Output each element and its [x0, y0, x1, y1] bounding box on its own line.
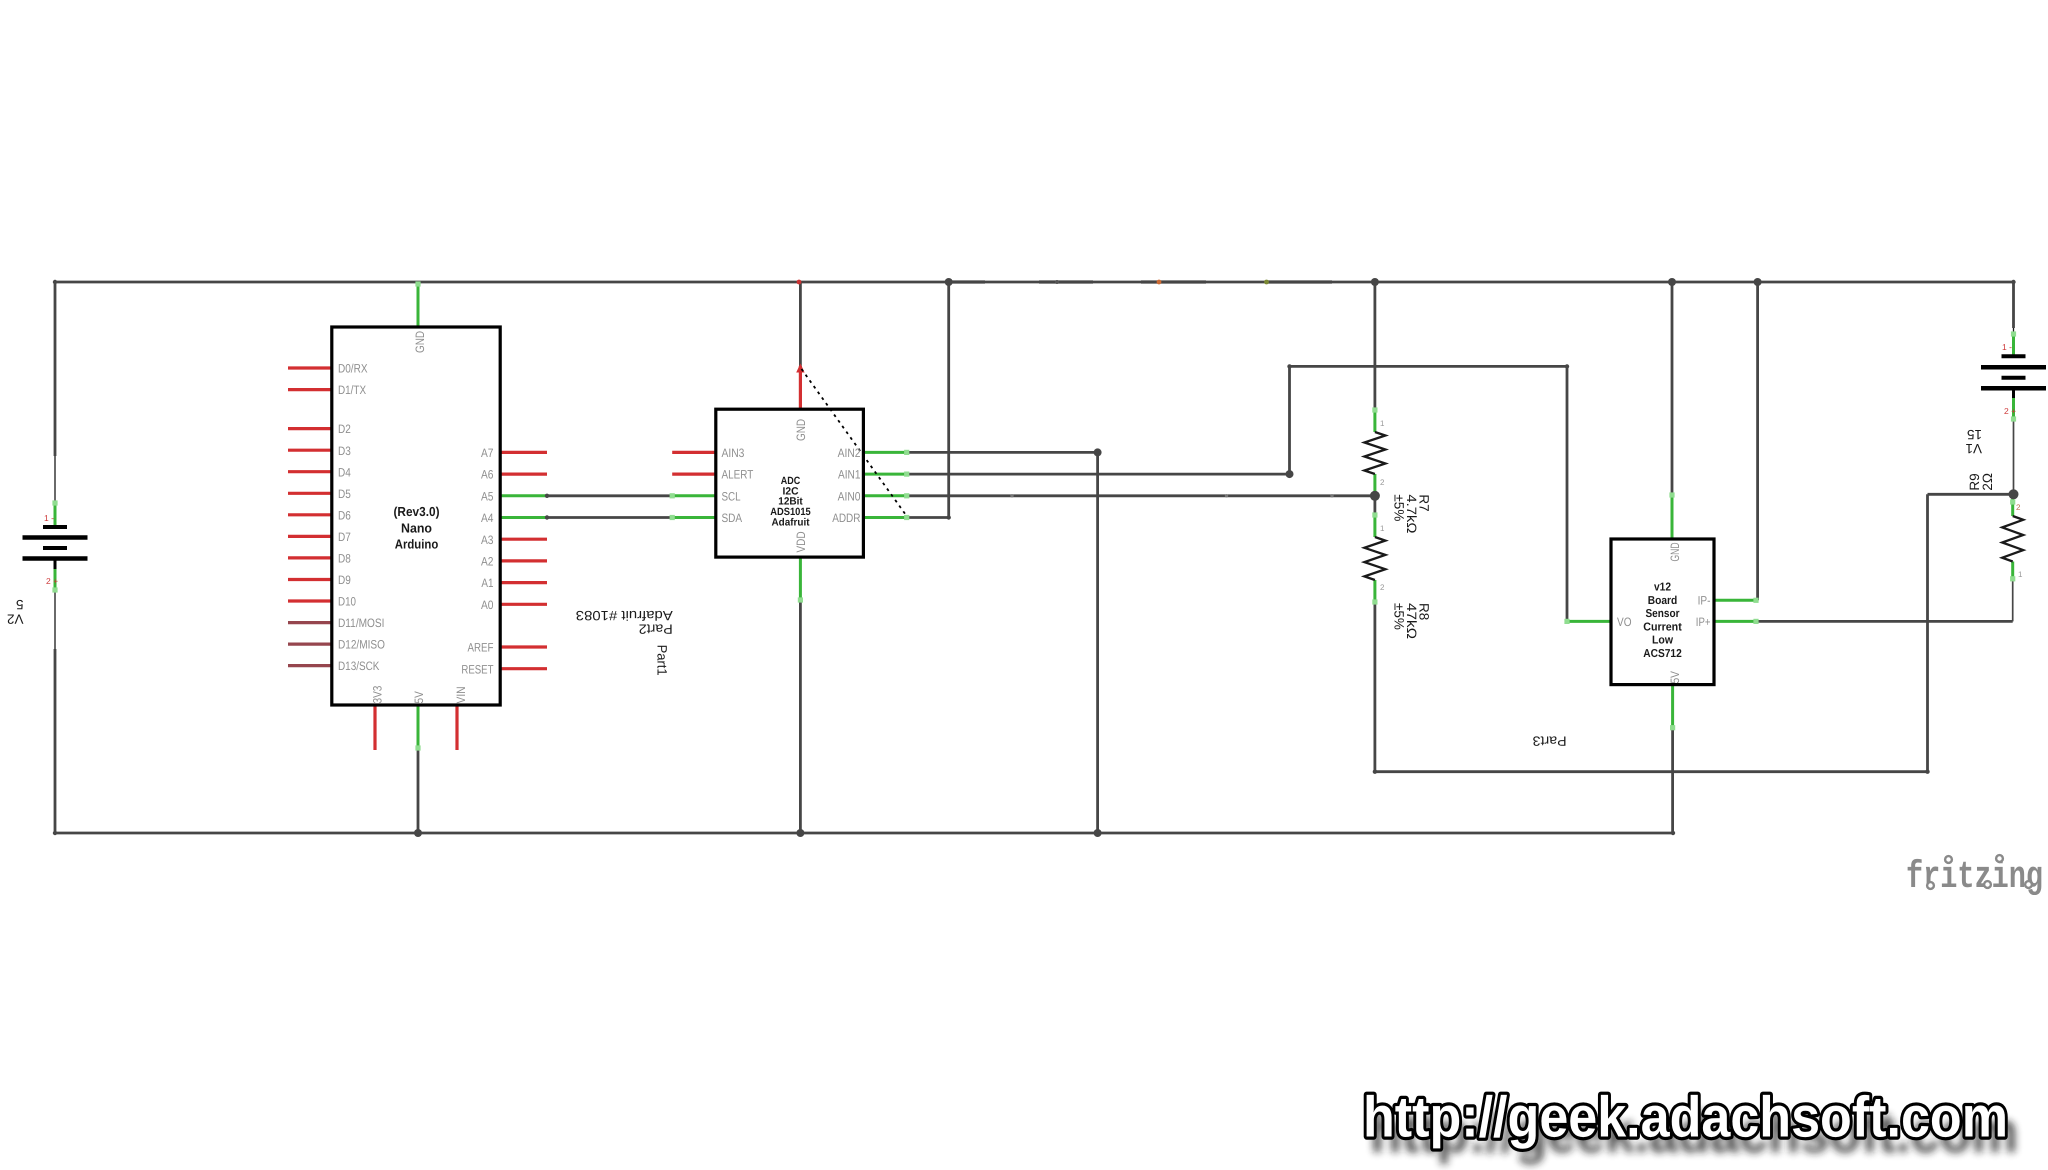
svg-text:AIN0: AIN0 — [838, 489, 861, 503]
svg-text:D1/TX: D1/TX — [338, 383, 366, 397]
svg-text:V2: V2 — [7, 612, 24, 627]
svg-text:ALERT: ALERT — [722, 468, 754, 482]
svg-text:2: 2 — [1380, 478, 1385, 487]
svg-text:±5%: ±5% — [1391, 494, 1406, 521]
svg-text:ACS712: ACS712 — [1643, 648, 1682, 660]
svg-text:Board: Board — [1648, 595, 1678, 607]
svg-text:Part1: Part1 — [655, 645, 670, 676]
svg-text:VIN: VIN — [454, 686, 468, 703]
svg-text:1 -: 1 - — [44, 513, 54, 523]
svg-text:D12/MISO: D12/MISO — [338, 638, 385, 652]
svg-text:5V: 5V — [1668, 670, 1682, 683]
svg-text:AIN1: AIN1 — [838, 468, 861, 482]
svg-text:2Ω: 2Ω — [1980, 473, 1995, 491]
svg-text:D7: D7 — [338, 530, 351, 544]
svg-text:D4: D4 — [338, 465, 351, 479]
svg-text:1: 1 — [1380, 524, 1385, 533]
svg-text:5: 5 — [16, 597, 24, 612]
svg-text:D9: D9 — [338, 573, 351, 587]
svg-text:AIN3: AIN3 — [722, 446, 745, 460]
svg-text:A0: A0 — [481, 598, 494, 612]
svg-text:AREF: AREF — [468, 641, 494, 655]
svg-text:2 +: 2 + — [46, 576, 58, 586]
svg-text:Part3: Part3 — [1533, 734, 1567, 749]
svg-text:v12: v12 — [1654, 582, 1671, 594]
svg-text:D3: D3 — [338, 444, 351, 458]
svg-text:IP+: IP+ — [1696, 615, 1711, 629]
svg-text:GND: GND — [794, 419, 808, 441]
svg-text:A5: A5 — [481, 489, 494, 503]
svg-text:VO: VO — [1617, 615, 1632, 629]
svg-text:A1: A1 — [481, 576, 493, 590]
svg-text:3V3: 3V3 — [371, 685, 385, 703]
svg-text:VDD: VDD — [794, 531, 808, 552]
svg-text:AIN2: AIN2 — [838, 446, 861, 460]
svg-text:IP-: IP- — [1698, 594, 1711, 608]
svg-text:±5%: ±5% — [1391, 603, 1406, 630]
svg-text:2 +: 2 + — [2004, 406, 2016, 416]
svg-text:15: 15 — [1967, 427, 1982, 442]
svg-text:(Rev3.0): (Rev3.0) — [394, 504, 440, 519]
svg-text:GND: GND — [1668, 542, 1682, 561]
svg-text:fritzing: fritzing — [1906, 856, 2043, 899]
svg-text:D0/RX: D0/RX — [338, 362, 368, 376]
svg-text:D5: D5 — [338, 487, 351, 501]
svg-text:2: 2 — [1380, 583, 1385, 592]
svg-text:5V: 5V — [412, 690, 426, 703]
svg-text:2: 2 — [2016, 503, 2021, 512]
svg-text:SDA: SDA — [722, 511, 743, 525]
svg-text:Sensor: Sensor — [1646, 608, 1680, 620]
svg-text:Arduino: Arduino — [395, 537, 439, 552]
svg-text:D11/MOSI: D11/MOSI — [338, 616, 385, 630]
svg-text:Nano: Nano — [401, 520, 432, 535]
svg-text:SCL: SCL — [722, 489, 741, 503]
svg-text:D13/SCK: D13/SCK — [338, 659, 379, 673]
svg-text:Low: Low — [1652, 635, 1673, 647]
svg-text:ADDR: ADDR — [832, 511, 860, 525]
svg-text:D2: D2 — [338, 422, 351, 436]
svg-text:A4: A4 — [481, 511, 494, 525]
svg-text:Adafruit #1083: Adafruit #1083 — [576, 608, 673, 623]
svg-text:A3: A3 — [481, 533, 494, 547]
svg-text:1: 1 — [1380, 419, 1385, 428]
svg-text:1 -: 1 - — [2002, 342, 2012, 352]
svg-text:D6: D6 — [338, 508, 351, 522]
svg-text:http://geek.adachsoft.com: http://geek.adachsoft.com — [1363, 1086, 2008, 1150]
svg-text:RESET: RESET — [461, 662, 494, 676]
svg-text:A7: A7 — [481, 446, 494, 460]
svg-text:Current: Current — [1643, 621, 1682, 633]
svg-text:Adafruit: Adafruit — [772, 516, 810, 528]
svg-text:A6: A6 — [481, 468, 494, 482]
svg-text:1: 1 — [2018, 570, 2023, 579]
svg-text:A2: A2 — [481, 555, 494, 569]
svg-text:GND: GND — [413, 331, 427, 353]
svg-text:V1: V1 — [1965, 441, 1982, 456]
svg-text:D10: D10 — [338, 595, 356, 609]
svg-text:D8: D8 — [338, 552, 351, 566]
